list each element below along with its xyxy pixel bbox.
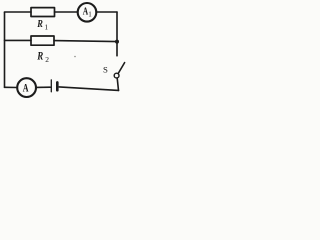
wire bottom-left corner to ammeter A bbox=[5, 86, 18, 88]
wire R2 branch from left vertical bbox=[5, 39, 32, 41]
svg-text:R: R bbox=[36, 51, 43, 63]
ammeter A bbox=[17, 78, 36, 97]
svg-text:1: 1 bbox=[88, 10, 92, 18]
wire left vertical bbox=[4, 12, 6, 87]
wire bottom horizontal right of battery bbox=[59, 87, 118, 91]
wire switch to bottom-right corner bbox=[117, 78, 118, 90]
wire ammeter A to battery bbox=[36, 86, 50, 88]
svg-text:S: S bbox=[103, 65, 108, 75]
ammeter A1 bbox=[78, 3, 97, 22]
battery cell: thick short plate bbox=[56, 82, 59, 90]
resistor R2 bbox=[31, 36, 54, 45]
svg-text:2: 2 bbox=[45, 55, 49, 64]
switch S blade bbox=[118, 63, 125, 74]
wire R1 to ammeter A1 bbox=[55, 11, 78, 13]
svg-text:A: A bbox=[23, 83, 29, 95]
wire right vertical upper bbox=[116, 12, 118, 56]
svg-text:R: R bbox=[36, 18, 42, 30]
switch S contact circle bbox=[114, 73, 119, 78]
wire A1 to top-right corner bbox=[96, 11, 117, 13]
resistor R1 bbox=[31, 8, 55, 17]
speckle noise dot bbox=[74, 56, 76, 58]
svg-text:1: 1 bbox=[44, 23, 48, 32]
battery cell: thin long plate bbox=[50, 80, 52, 92]
node junction R2/right wire bbox=[115, 40, 119, 44]
wire R2 to right vertical bbox=[54, 41, 117, 42]
wire top-left horizontal bbox=[5, 11, 32, 13]
